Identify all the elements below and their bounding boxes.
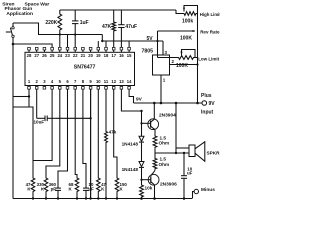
node pin2 chain junction: [196, 63, 198, 65]
svg-text:20: 20: [88, 53, 93, 58]
node ground junction: [85, 197, 87, 199]
node 10k ground: [140, 197, 143, 200]
node Q2 collector ground: [153, 197, 156, 200]
resistor 1.5 Ohm lower: [153, 157, 169, 171]
svg-text:26: 26: [42, 53, 47, 58]
svg-text:Ohm: Ohm: [159, 162, 170, 167]
svg-text:13: 13: [119, 79, 124, 84]
svg-text:1N4148: 1N4148: [122, 141, 139, 146]
node output riser junction: [175, 152, 177, 154]
wire 220K node to pin 24: [59, 35, 61, 48]
resistor 150K: [115, 177, 127, 199]
wire mid node: [154, 149, 156, 157]
node chain on 9V rail: [196, 102, 199, 105]
wire pin9 to ground rail: [90, 89, 92, 198]
node cap tap: [183, 152, 185, 154]
wire one-shot bus to pin 23: [67, 35, 69, 48]
node ground junction: [76, 197, 78, 199]
node chain top: [140, 110, 142, 112]
node ground junction: [105, 197, 107, 199]
svg-text:1uF: 1uF: [80, 20, 89, 26]
resistor 47k inline: [105, 130, 117, 145]
wire output to speaker: [155, 152, 189, 154]
wire left ground rail: [12, 44, 14, 199]
svg-text:10k: 10k: [145, 186, 153, 191]
wire bus tap pin 15: [128, 41, 130, 47]
transistor Q1 2N3904: [148, 112, 176, 130]
wire 5V rail to High Limit: [176, 10, 183, 14]
svg-text:27: 27: [34, 53, 39, 58]
capacitor 10uF coupling: [34, 116, 56, 125]
wire 9V riser to speaker: [175, 103, 177, 153]
wire rail to ground stub line: [13, 107, 33, 177]
wire left rail to pin 1: [13, 96, 29, 98]
capacitor 360pF: [49, 180, 61, 199]
svg-text:Minus: Minus: [201, 187, 215, 193]
node riser on 5V bus: [156, 40, 158, 42]
wire pin10 down: [97, 89, 99, 176]
capacitor 10uF envelope: [83, 180, 94, 199]
wire bus tap pin 18: [105, 41, 107, 47]
svg-text:14: 14: [127, 79, 132, 84]
svg-text:Application: Application: [6, 11, 33, 17]
node 1uF bus crossing: [74, 33, 76, 35]
wire pin11 down: [105, 89, 107, 130]
svg-text:12: 12: [111, 79, 116, 84]
svg-text:47k: 47k: [109, 130, 117, 135]
svg-text:28: 28: [27, 53, 32, 58]
speaker SPKR: [189, 142, 220, 162]
svg-text:uF: uF: [187, 171, 193, 176]
wire Q2 collector to ground: [154, 185, 156, 199]
wire pot chain upper: [197, 14, 199, 58]
wire chain mid: [141, 143, 143, 162]
wire descent to 5V bus: [101, 35, 103, 42]
svg-text:17: 17: [111, 53, 116, 58]
wire 5V rail: [60, 9, 176, 11]
node ground junction: [89, 197, 91, 199]
svg-text:18: 18: [104, 53, 109, 58]
capacitor 1uF: [72, 10, 89, 35]
wire chain upper: [141, 111, 143, 136]
terminal Plus 9V Input: [201, 93, 215, 116]
wire pin6 to 360pF: [58, 89, 68, 180]
terminal Minus: [193, 187, 216, 199]
svg-text:Ohm: Ohm: [159, 141, 170, 146]
svg-text:Plus: Plus: [201, 93, 212, 99]
svg-text:5V: 5V: [147, 36, 154, 42]
node 7805 pin1 on 9V rail: [160, 102, 163, 105]
svg-text:uF: uF: [89, 187, 95, 192]
wire pin8 to 10uF: [83, 89, 86, 180]
svg-text:23: 23: [65, 53, 70, 58]
svg-text:Low Limit: Low Limit: [198, 57, 219, 62]
potentiometer Rev Rate 100K wiper: [158, 30, 220, 42]
svg-text:19: 19: [96, 53, 101, 58]
svg-text:16: 16: [119, 53, 124, 58]
resistor 330K: [37, 177, 48, 199]
svg-text:47K: 47K: [102, 24, 112, 30]
svg-text:2N3904: 2N3904: [159, 112, 176, 118]
wire 7805 pin3 to 5V bus: [162, 41, 164, 55]
wire bus tap pin 19: [97, 41, 99, 47]
svg-text:9V: 9V: [209, 101, 216, 107]
node ground junction: [45, 197, 47, 199]
resistor 10k: [140, 180, 153, 199]
svg-text:9V: 9V: [136, 96, 143, 102]
svg-text:25: 25: [50, 53, 55, 58]
svg-text:High Limit: High Limit: [200, 12, 220, 17]
capacitor 10uF output: [181, 153, 193, 199]
wire pin12 to 150K: [114, 89, 117, 176]
svg-text:100k: 100k: [182, 19, 193, 25]
svg-text:22: 22: [73, 53, 78, 58]
svg-text:220K: 220K: [45, 20, 57, 26]
svg-text:21: 21: [81, 53, 86, 58]
svg-text:SPKR: SPKR: [207, 150, 221, 155]
wire Q1 emitter: [154, 130, 156, 135]
wire speaker plus: [176, 147, 189, 149]
node bus junction: [101, 40, 103, 42]
node 220K bottom: [59, 33, 61, 35]
wire 10uF line to pin 9: [56, 117, 91, 119]
wire pin14 to 9V rail: [129, 89, 133, 103]
svg-text:24: 24: [57, 53, 62, 58]
potentiometer High Limit 100k: [182, 6, 221, 25]
wire 9V rail: [134, 102, 203, 104]
wire 7805 pin1 to 9V rail: [160, 75, 162, 103]
potentiometer Low Limit 100K: [158, 50, 220, 70]
svg-text:100K: 100K: [176, 63, 188, 69]
node Q2 base junction: [140, 179, 142, 181]
node pin1 junction: [28, 95, 30, 97]
node ground junction: [116, 197, 118, 199]
node cap ground: [183, 197, 186, 200]
node riser on rail: [175, 102, 178, 105]
wire 5V bus: [102, 40, 163, 42]
resistor 47K noise clock: [26, 177, 35, 199]
wire pin4 to 47K: [33, 89, 52, 160]
svg-text:10uF: 10uF: [34, 120, 45, 125]
diode D2 1N4148: [122, 162, 144, 172]
wire chain to Q2 base: [141, 168, 143, 180]
wire ground rail: [13, 198, 192, 200]
wire pin1 down: [28, 89, 30, 107]
wire pin5 to 330K: [46, 89, 60, 176]
node chain base tap: [140, 122, 142, 124]
wire Q2 base: [142, 179, 151, 181]
wire pin9 to ground: [90, 89, 92, 198]
wire switch to one-shot bus: [13, 23, 102, 35]
wire 1uF to pin 22: [74, 35, 76, 48]
svg-text:Rev Rate: Rev Rate: [200, 30, 220, 35]
resistor 1.5 Ohm upper: [153, 135, 169, 149]
wire switch to pin 25: [13, 44, 52, 47]
IC pin stubs and numbers: [27, 47, 132, 89]
diode D1 1N4148: [122, 136, 144, 146]
transistor Q2 2N3906: [148, 170, 177, 187]
wire pot chain to 9V rail: [197, 58, 199, 104]
svg-text:47uF: 47uF: [125, 24, 137, 30]
capacitor 47uF: [118, 10, 137, 47]
wire pin7 to 68K: [75, 89, 77, 176]
node ground junction: [97, 197, 99, 199]
svg-text:100K: 100K: [180, 36, 192, 42]
wire pin11 to ground: [105, 144, 107, 199]
svg-text:Input: Input: [201, 110, 214, 116]
resistor 220K: [45, 10, 61, 35]
switch S1: [6, 23, 14, 44]
svg-text:SN76477: SN76477: [74, 65, 96, 71]
resistor 47K attack: [97, 177, 107, 199]
node at switch bottom: [12, 43, 15, 46]
regulator U2 7805: [142, 49, 175, 83]
svg-text:15: 15: [127, 53, 132, 58]
IC U1 SN76477 body: [25, 52, 135, 85]
wire pin13 to chain: [121, 89, 141, 111]
svg-text:11: 11: [104, 79, 109, 84]
wire pin2 down: [36, 89, 38, 118]
svg-text:7805: 7805: [142, 49, 154, 55]
node on pin9 line: [89, 117, 91, 119]
svg-text:10: 10: [96, 79, 101, 84]
node ground junction: [57, 197, 59, 199]
wire Rev Rate riser: [157, 31, 159, 58]
node ground junction: [32, 197, 34, 199]
wire Q1 collector to 9V: [153, 103, 155, 119]
label 5V: [147, 36, 154, 42]
svg-text:1N4148: 1N4148: [122, 167, 139, 172]
resistor 47K: [102, 10, 116, 47]
svg-text:pF: pF: [51, 187, 57, 192]
title text: [2, 2, 49, 17]
node Q1 collector rail: [153, 102, 156, 105]
svg-text:2N3906: 2N3906: [160, 182, 177, 188]
label 9V rail: [136, 96, 143, 102]
wire Q1 base: [142, 122, 151, 124]
resistor 68K: [69, 177, 79, 199]
wire 7805 pin2 to input chain: [170, 64, 198, 66]
